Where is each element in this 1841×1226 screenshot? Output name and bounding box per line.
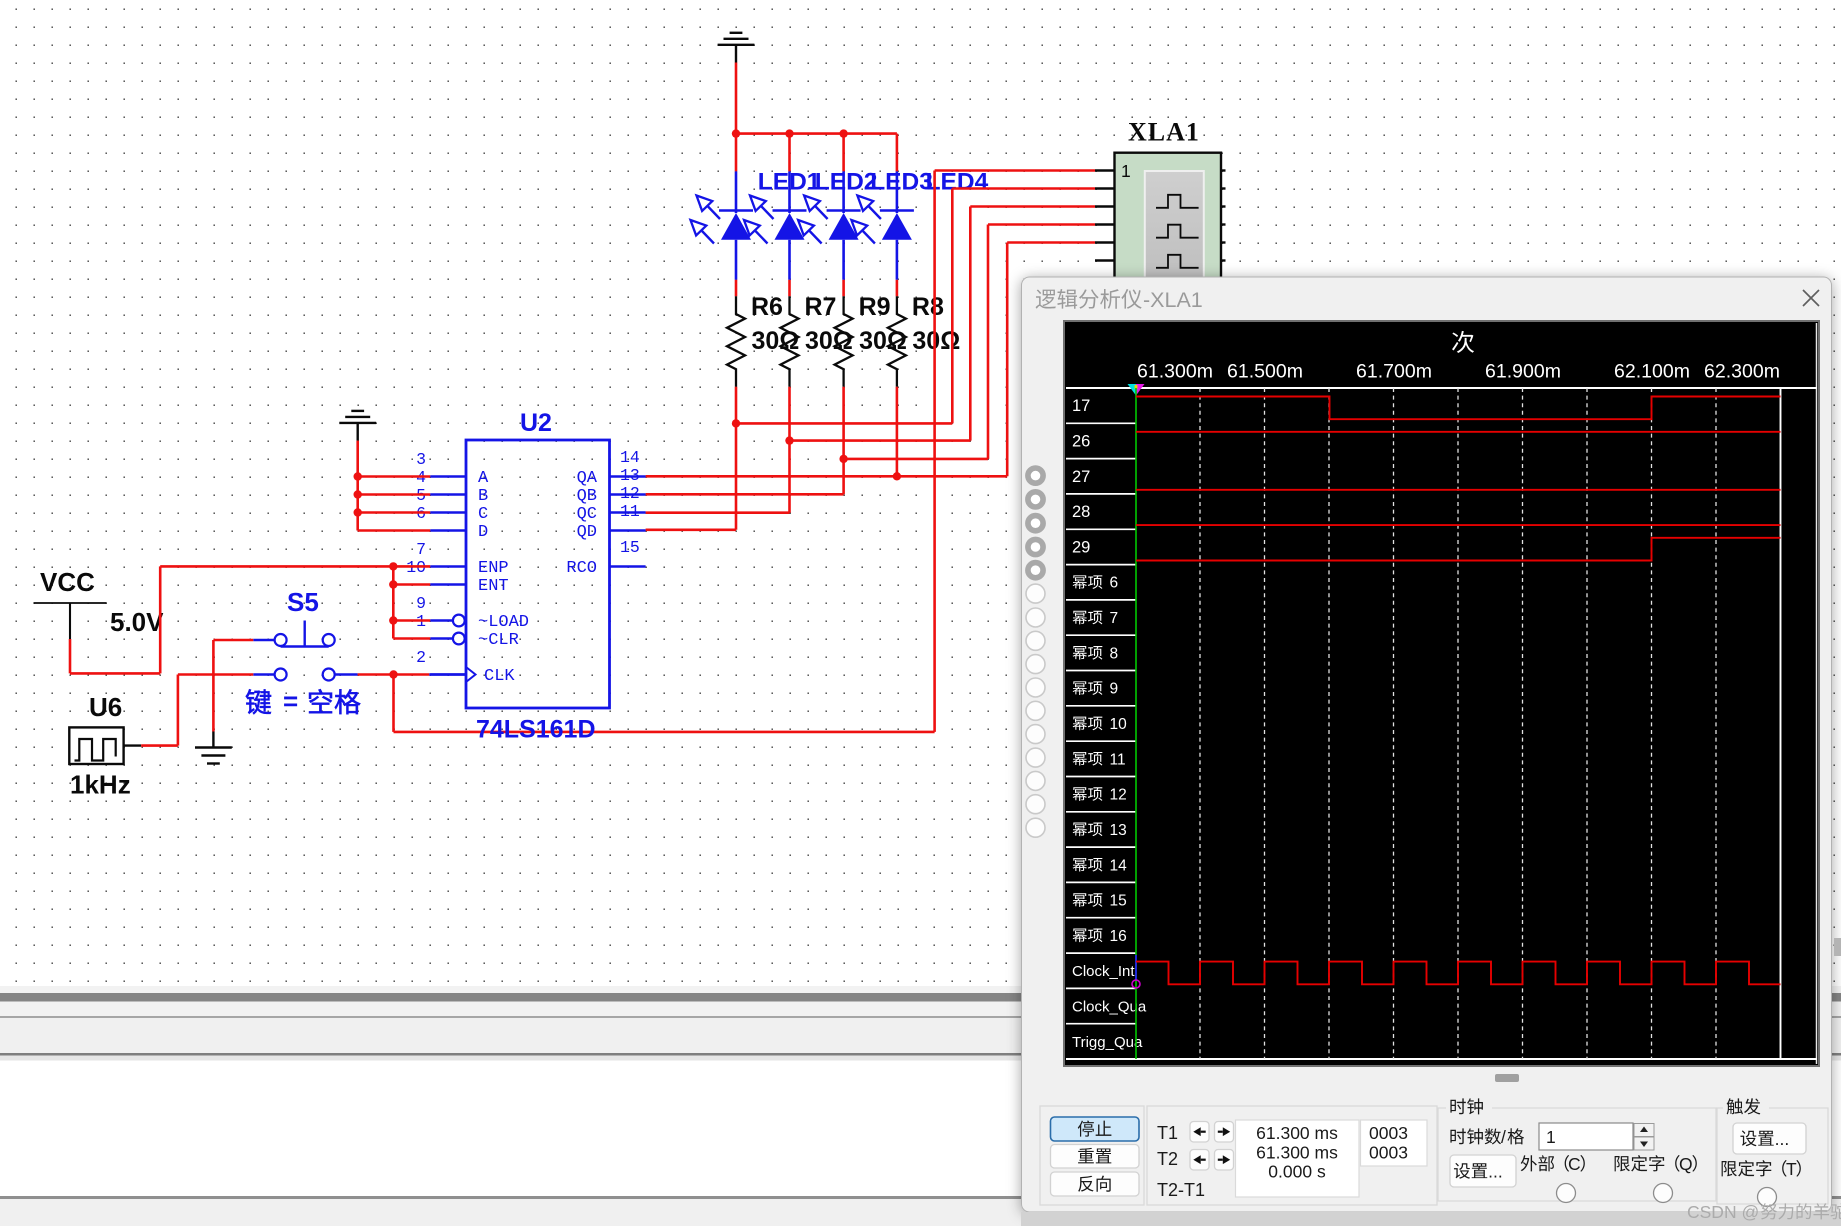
LED LED1: [691, 171, 754, 279]
pin 1 (~CLR) of U2: [416, 612, 519, 650]
button 反向: [1051, 1172, 1140, 1196]
resistor R7: [781, 296, 799, 386]
svg-text:14: 14: [1110, 857, 1128, 874]
svg-text:RCO: RCO: [566, 559, 597, 578]
junction QC net / R7 column: [785, 436, 793, 444]
clocks/div input: [1539, 1123, 1633, 1150]
LED LED3: [798, 171, 861, 279]
spinner: [1634, 1124, 1654, 1137]
trigger marker triangle: [1128, 384, 1137, 396]
button 停止: [1051, 1117, 1140, 1141]
bottom bars: [0, 986, 1841, 993]
svg-text:7: 7: [416, 540, 426, 559]
label 时钟数/格: [1450, 1128, 1465, 1144]
svg-text:62.100m: 62.100m: [1614, 361, 1690, 383]
wire to ENP: [393, 565, 430, 568]
group 时钟 (clock): [1438, 1108, 1716, 1201]
resistor R6: [727, 296, 745, 386]
svg-text:1kHz: 1kHz: [70, 770, 131, 800]
junction bus/LED2: [785, 129, 793, 137]
button 设置... (trigger): [1733, 1123, 1806, 1154]
waveform channel 28 (QD): [1136, 524, 1781, 526]
wire bus to LED2 anode: [788, 134, 791, 172]
svg-text:S5: S5: [287, 587, 319, 617]
pin 3 (A) of U2: [416, 450, 489, 488]
dialog title 逻辑分析仪-XLA1: [1036, 289, 1056, 308]
junction QA net / R8 column: [893, 472, 901, 480]
svg-text:1: 1: [1121, 161, 1131, 181]
svg-text:D: D: [478, 523, 488, 542]
wire bus to LED1 anode: [735, 134, 738, 172]
pin (QC) of U2: [577, 484, 646, 524]
channel terminal indicators: [1026, 468, 1045, 837]
button 设置... (clock): [1450, 1155, 1516, 1187]
wire QA net to XLA1 pin5: [897, 475, 1007, 478]
label 限定字 (T): [1722, 1161, 1737, 1176]
instrument XLA1 (logic analyzer icon): [1095, 153, 1226, 293]
svg-text:ENP: ENP: [478, 559, 509, 578]
svg-text:15: 15: [620, 538, 640, 557]
svg-text:R6: R6: [751, 293, 783, 321]
svg-text:/: /: [1501, 1127, 1506, 1147]
pin (RCO) of U2: [566, 538, 645, 578]
wire R9 to output net: [842, 387, 845, 495]
svg-text:17: 17: [1072, 397, 1090, 415]
pin 9 (~LOAD) of U2: [416, 594, 529, 632]
wire R7 to output net: [788, 387, 791, 513]
wire to pin B: [358, 493, 431, 496]
group 触发 (trigger): [1717, 1108, 1828, 1204]
waveform channel 29: [1136, 538, 1781, 561]
wire bus to LED4 anode: [896, 134, 899, 172]
svg-text:12: 12: [620, 484, 640, 503]
logic analyzer dialog window: [1022, 277, 1832, 1212]
wire to pin D: [358, 529, 431, 532]
svg-text:...: ...: [1775, 1129, 1790, 1149]
channel row separators: [1066, 423, 1136, 1023]
svg-text:61.300 ms: 61.300 ms: [1256, 1143, 1338, 1163]
pin 6 (D) of U2: [416, 504, 488, 542]
label 键 = 空格: [246, 689, 271, 714]
svg-text:28: 28: [1072, 503, 1090, 521]
svg-text:11: 11: [1110, 751, 1126, 768]
radio Q: [1654, 1184, 1673, 1203]
wire to pin A: [358, 475, 431, 478]
svg-text:74LS161D: 74LS161D: [476, 716, 596, 744]
svg-text:C: C: [1568, 1154, 1581, 1174]
svg-text:=: =: [283, 686, 298, 716]
svg-text:QD: QD: [577, 523, 597, 542]
plot title 次: [1452, 331, 1474, 353]
svg-text:...: ...: [1488, 1161, 1503, 1181]
pin (QB) of U2: [577, 466, 646, 506]
wire ground to LED bus: [735, 63, 738, 134]
junction B: [354, 490, 362, 498]
wire to ~LOAD: [393, 619, 430, 622]
waveform display panel: [1064, 321, 1819, 1066]
junction QD net / R6 column: [732, 419, 740, 427]
svg-text:U2: U2: [520, 409, 552, 437]
wire LED4 cathode to resistor: [896, 280, 899, 297]
svg-text:13: 13: [620, 466, 640, 485]
time readout field: [1236, 1120, 1360, 1197]
pin (QD) of U2: [577, 502, 646, 542]
svg-text:-XLA1: -XLA1: [1143, 288, 1203, 312]
svg-text:12: 12: [1110, 787, 1127, 804]
svg-text:CLK: CLK: [484, 667, 515, 686]
ground (S5): [212, 732, 214, 748]
svg-text:A: A: [478, 469, 489, 488]
wire to pin C: [358, 511, 431, 514]
wire QC net to XLA1 pin3: [790, 439, 971, 442]
LED LED4: [851, 171, 914, 279]
svg-text:LED3: LED3: [870, 169, 933, 196]
wire U6 to S5: [141, 744, 178, 747]
svg-text:B: B: [478, 487, 488, 506]
svg-text:61.700m: 61.700m: [1356, 361, 1432, 383]
LED LED2: [744, 171, 807, 279]
svg-text:15: 15: [1110, 893, 1127, 910]
svg-text:61.500m: 61.500m: [1227, 361, 1303, 383]
wire QC output: [646, 511, 790, 514]
wire R8 to output net: [896, 387, 899, 477]
svg-text:8: 8: [1110, 645, 1119, 662]
junction ENT: [389, 580, 397, 588]
panel divider handle: [1495, 1074, 1519, 1082]
svg-text:ENT: ENT: [478, 577, 509, 596]
wire QB net to XLA1 pin4: [844, 458, 988, 461]
svg-text:Trigg_Qua: Trigg_Qua: [1072, 1034, 1143, 1051]
svg-text:Q: Q: [1679, 1154, 1693, 1174]
svg-text:T2: T2: [1157, 1149, 1178, 1169]
svg-text:61.300 ms: 61.300 ms: [1256, 1123, 1338, 1143]
svg-text:~LOAD: ~LOAD: [478, 613, 529, 632]
junction C: [354, 508, 362, 516]
wire VCC to enable pins: [69, 639, 72, 673]
svg-text:2: 2: [416, 648, 426, 667]
junction bus/LED1: [732, 129, 740, 137]
pin 5 (C) of U2: [416, 486, 488, 524]
svg-text:XLA1: XLA1: [1128, 118, 1200, 147]
channel labels: [1072, 397, 1147, 1051]
label 限定字 (Q): [1615, 1156, 1630, 1171]
svg-text:9: 9: [1110, 681, 1119, 698]
radio C: [1557, 1184, 1576, 1203]
svg-text:CSDN @: CSDN @: [1687, 1202, 1759, 1222]
svg-text:29: 29: [1072, 538, 1090, 556]
svg-text:C: C: [478, 505, 488, 524]
wire CLK to XLA1 pin1: [392, 675, 395, 732]
waveform channel 26 (QB): [1136, 431, 1781, 433]
svg-text:27: 27: [1072, 468, 1090, 486]
pin 7 (ENP) of U2: [416, 540, 509, 578]
svg-text:QA: QA: [577, 469, 598, 488]
wire S5 upper to ground: [213, 639, 253, 642]
control group borders: [1040, 1106, 1437, 1205]
waveform channel 27 (QC): [1136, 489, 1781, 491]
wire to ENT: [393, 583, 430, 586]
junction ~LOAD: [389, 616, 397, 624]
svg-text:10: 10: [1110, 716, 1128, 733]
cursor line: [1135, 388, 1137, 1059]
svg-text:7: 7: [1110, 610, 1119, 627]
junction CLK: [389, 670, 397, 678]
dashed gridlines: [1200, 388, 1716, 1059]
svg-text:61.300m: 61.300m: [1137, 361, 1213, 383]
radio T: [1758, 1188, 1777, 1207]
pin 10 (ENT) of U2: [406, 558, 508, 596]
svg-text:U6: U6: [89, 692, 122, 722]
plot axes: [1066, 388, 1817, 1059]
svg-text:VCC: VCC: [40, 567, 95, 597]
wire VCC vertical to LOAD/CLR: [392, 566, 395, 638]
waveform channel 17 (QA): [1136, 397, 1781, 420]
dialog close button: [1803, 290, 1819, 306]
pin 2 (CLK) of U2: [416, 648, 515, 686]
junction QB net / R9 column: [839, 455, 847, 463]
clock count field: [1361, 1120, 1428, 1166]
junction bus/LED3: [839, 129, 847, 137]
svg-text:T1: T1: [1157, 1123, 1178, 1143]
svg-text:R9: R9: [859, 293, 891, 321]
svg-text:R8: R8: [912, 293, 944, 321]
svg-text:5.0V: 5.0V: [110, 607, 164, 637]
svg-text:6: 6: [1110, 575, 1119, 592]
svg-text:T: T: [1786, 1159, 1797, 1179]
wire QB output: [646, 493, 844, 496]
waveform Clock_Int: [1136, 962, 1781, 985]
page scrollbar fragment: [1834, 938, 1841, 956]
wire R6 to output net: [735, 387, 738, 530]
junction A: [354, 472, 362, 480]
svg-text:0.000 s: 0.000 s: [1268, 1162, 1326, 1182]
svg-text:14: 14: [620, 448, 640, 467]
wire QD output: [646, 528, 736, 531]
svg-text:62.300m: 62.300m: [1704, 361, 1780, 383]
svg-text:26: 26: [1072, 432, 1090, 450]
wire LED bus: [736, 132, 897, 135]
svg-text:61.900m: 61.900m: [1485, 361, 1561, 383]
svg-text:11: 11: [620, 502, 640, 521]
wire QA output: [646, 475, 897, 478]
ground (U2 data inputs): [351, 410, 364, 412]
svg-text:QB: QB: [577, 487, 597, 506]
svg-text:LED2: LED2: [815, 169, 878, 196]
strip under dialog bottom: [1021, 1212, 1841, 1226]
IC U2 74LS161D body: [466, 440, 610, 708]
clock source U6 1kHz: [69, 727, 141, 764]
svg-text:T2-T1: T2-T1: [1157, 1180, 1205, 1200]
wire LED3 cathode to resistor: [842, 280, 845, 297]
power VCC 5.0V: [34, 602, 107, 604]
svg-text:16: 16: [1110, 928, 1127, 945]
wire S5 lower to CLK: [358, 673, 430, 676]
svg-text:1: 1: [1546, 1127, 1556, 1147]
svg-text:~CLR: ~CLR: [478, 631, 519, 650]
wire bus to LED3 anode: [842, 134, 845, 172]
wire QD net to XLA1 pin2: [736, 422, 952, 425]
svg-text:9: 9: [416, 594, 426, 613]
ground (top, LED supply): [730, 32, 743, 34]
cursor arrow buttons: [1190, 1122, 1234, 1171]
svg-text:3: 3: [416, 450, 426, 469]
junction ENP: [389, 562, 397, 570]
svg-text:Clock_Int: Clock_Int: [1072, 963, 1135, 980]
resistor R9: [835, 296, 853, 386]
svg-text:13: 13: [1110, 822, 1127, 839]
pin 4 (B) of U2: [416, 468, 488, 506]
resistor R8: [888, 296, 906, 386]
svg-text:R7: R7: [805, 293, 837, 321]
svg-text:0003: 0003: [1369, 1143, 1408, 1163]
wire to ~CLR: [393, 637, 430, 640]
svg-text:QC: QC: [577, 505, 597, 524]
wire LED2 cathode to resistor: [788, 280, 791, 297]
switch S5 (key = space): [253, 621, 357, 681]
label 外部 (C): [1521, 1155, 1537, 1171]
button 重置: [1051, 1145, 1140, 1169]
wire LED1 cathode to resistor: [735, 280, 738, 297]
svg-text:0003: 0003: [1369, 1123, 1408, 1143]
wire ground to ABCD: [356, 441, 359, 531]
time axis labels: [1137, 361, 1780, 383]
pin (QA) of U2: [577, 448, 646, 488]
